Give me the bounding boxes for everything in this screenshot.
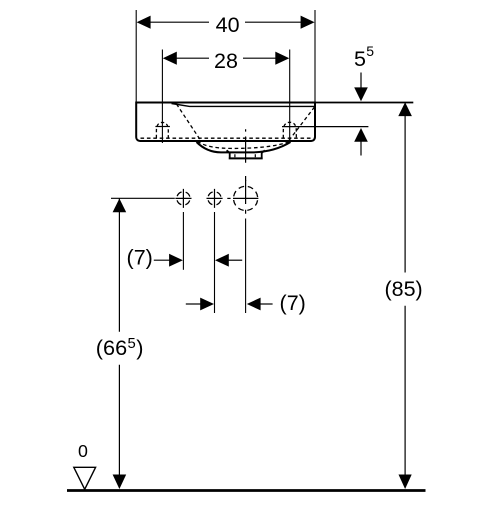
basin bowl inner bottom hidden curve bbox=[198, 141, 291, 148]
supply hole left crosshair bbox=[175, 189, 191, 208]
svg-text:28: 28 bbox=[214, 49, 238, 73]
66.5 dim top arrowhead bbox=[113, 199, 127, 213]
40 dim right extension line (sink right side) bbox=[314, 10, 316, 102]
28 dimension line bbox=[176, 57, 276, 59]
top edge extension line to 85 dim bbox=[316, 102, 413, 104]
drain hole crosshair bbox=[233, 180, 258, 214]
svg-text:(7): (7) bbox=[127, 245, 153, 269]
dim 7 right: arrow pointing right bbox=[186, 303, 201, 305]
supply hole right circle bbox=[208, 192, 221, 205]
basin right wall hidden line bbox=[289, 107, 315, 141]
basin bowl outer bottom visible curve bbox=[197, 142, 291, 152]
dim 7 left: arrow pointing left bbox=[215, 254, 229, 267]
svg-text:5: 5 bbox=[366, 43, 374, 59]
5.5 dim upper arrow (pointing down) bbox=[360, 73, 362, 89]
basin bottom hidden line bbox=[141, 137, 314, 139]
40 dimension line bbox=[151, 21, 302, 23]
datum triangle bbox=[74, 467, 96, 489]
left fixing hole hidden outline bbox=[156, 122, 168, 138]
85 dim top arrowhead bbox=[398, 102, 412, 116]
drain hole extension line bbox=[245, 219, 247, 314]
40 dim right arrowhead bbox=[301, 16, 315, 29]
85 dim bottom arrowhead bbox=[399, 475, 412, 490]
basin left wall hidden line bbox=[177, 104, 202, 141]
supply hole right extension line bbox=[214, 212, 216, 313]
floor line bbox=[67, 489, 426, 492]
28 dim right extension line / right hole centerline bbox=[289, 50, 291, 144]
dim 7 left: arrow pointing right bbox=[154, 259, 170, 261]
washbasin body outline bbox=[136, 103, 315, 142]
66.5 dimension line bbox=[118, 198, 120, 487]
right fixing hole cross arm / extension line to 5.5 dim bbox=[282, 126, 368, 128]
right fixing hole hidden outline bbox=[283, 122, 296, 138]
drain centerline through trap bbox=[245, 129, 247, 181]
drain hole circle bbox=[234, 186, 258, 210]
basin rim visible edge bbox=[172, 104, 315, 107]
left fixing hole cross arm bbox=[155, 126, 170, 128]
svg-text:(7): (7) bbox=[280, 291, 306, 315]
28 dim right arrowhead bbox=[275, 52, 289, 65]
drain fitting bbox=[227, 150, 265, 157]
svg-text:(85): (85) bbox=[384, 277, 422, 301]
28 dim left arrowhead bbox=[163, 52, 177, 65]
5.5 dim lower arrow (pointing up) bbox=[354, 128, 368, 142]
28 dim left extension line / left hole centerline bbox=[161, 50, 163, 144]
supply hole left extension line bbox=[182, 212, 184, 270]
supply hole right crosshair bbox=[207, 189, 223, 208]
svg-text:5: 5 bbox=[354, 47, 366, 71]
reference line at supply height bbox=[111, 197, 175, 199]
svg-text:40: 40 bbox=[216, 13, 240, 37]
40 dim left arrowhead bbox=[137, 16, 151, 29]
svg-text:0: 0 bbox=[78, 441, 88, 461]
40 dim left extension line (sink left side) bbox=[135, 10, 137, 102]
supply hole left circle bbox=[177, 192, 190, 205]
dim 7 right: arrow pointing left bbox=[247, 298, 261, 311]
centerline dash between holes bbox=[227, 197, 230, 199]
66.5 dim bottom arrowhead bbox=[113, 475, 127, 490]
svg-text:(665): (665) bbox=[96, 335, 144, 360]
85 dimension line bbox=[404, 104, 406, 488]
